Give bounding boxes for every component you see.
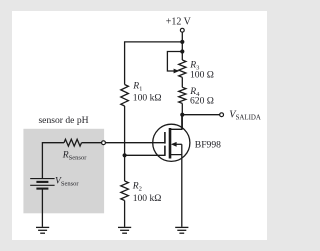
wire top branch to R1 [125, 42, 183, 85]
wire R4 to drain junction [181, 103, 183, 129]
terminal VSALIDA [220, 113, 224, 117]
svg-text:+12 V: +12 V [166, 16, 192, 27]
resistor R2 zigzag [121, 181, 129, 201]
svg-text:620 Ω: 620 Ω [190, 96, 214, 107]
ground middle [118, 227, 131, 233]
wire output to VSALIDA [182, 114, 219, 116]
terminal +12V [180, 28, 184, 32]
sensor de pH box [23, 129, 104, 214]
svg-text:100 kΩ: 100 kΩ [133, 193, 162, 204]
wire battery to Rsensor [42, 143, 64, 179]
resistor R4 zigzag [179, 87, 186, 103]
resistor R1 zigzag [121, 85, 129, 107]
source lead [170, 155, 182, 227]
wire battery to ground [41, 189, 43, 227]
svg-text:sensor de pH: sensor de pH [38, 115, 88, 126]
ground right [175, 227, 188, 233]
terminal sensor output [102, 141, 106, 145]
junction dot gate 2 [123, 153, 127, 157]
gate bar 1 [164, 132, 166, 144]
substrate lead with arrow [176, 143, 182, 145]
resistor R3 zigzag [179, 60, 186, 77]
wire R3 wiper loop [167, 52, 182, 72]
transistor BF998 dual-gate MOSFET [153, 115, 190, 227]
wire R1 to R2 [124, 106, 126, 181]
wire main vertical +12V to R3 [181, 32, 183, 60]
gate bar 2 [164, 146, 166, 156]
channel [169, 128, 172, 159]
junction dot 2 [180, 49, 184, 53]
drain lead [170, 115, 182, 130]
wire R3 to R4 [181, 77, 183, 87]
wire terminal to gate 1 [105, 142, 165, 144]
arrowhead wiper into R3 [174, 69, 180, 74]
battery Vsensor [30, 179, 54, 189]
svg-text:100 Ω: 100 Ω [190, 69, 214, 80]
resistor Rsensor zigzag [64, 139, 82, 146]
wire divider to gate 2 [125, 154, 165, 156]
junction dot output [180, 113, 184, 117]
junction dot 1 [180, 40, 184, 44]
wire Rsensor to box terminal [82, 142, 102, 144]
svg-text:BF998: BF998 [195, 140, 221, 151]
wire R2 to ground [124, 201, 126, 227]
ground left [36, 227, 49, 233]
svg-text:100 kΩ: 100 kΩ [133, 93, 162, 104]
